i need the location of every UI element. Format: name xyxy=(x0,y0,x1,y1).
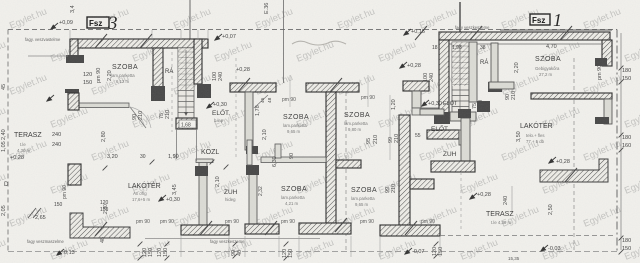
dim line x390 xyxy=(389,95,391,160)
window slash marks xyxy=(95,34,107,48)
T-wall party top xyxy=(306,83,359,92)
right stair left wall xyxy=(439,40,449,116)
level +0,30 lakoter xyxy=(159,195,166,201)
leg below T-wall right xyxy=(412,91,421,108)
frost-line dashed boundary top xyxy=(8,29,617,31)
hatched wall right of party wall xyxy=(336,160,361,168)
wall foot left xyxy=(66,55,84,63)
Fsz 3 label xyxy=(87,17,109,28)
dimension ticks xyxy=(103,66,624,261)
door post block 2 xyxy=(246,165,259,175)
wall piece left B xyxy=(68,164,81,185)
small wall ELOT left xyxy=(420,109,444,115)
leg foot xyxy=(246,146,258,154)
stair left wall foot xyxy=(151,86,165,101)
stair bottom wall right unit xyxy=(450,112,476,121)
door post block xyxy=(195,166,208,176)
small vertical divider xyxy=(275,144,281,158)
ELOT bottom wall right xyxy=(427,130,459,139)
ZUH footing right xyxy=(431,161,475,172)
right margin dimension chain xyxy=(620,33,622,250)
stair bottom wall xyxy=(176,118,197,129)
level mark +0.07 xyxy=(215,34,222,40)
wall D vertical xyxy=(399,115,410,225)
thin wall C upper extension xyxy=(247,140,252,165)
Fsz 1 label xyxy=(530,14,550,25)
top wall right unit xyxy=(439,32,610,40)
wall top-left horizontal (SZOBA Fsz3) xyxy=(70,39,208,48)
terrace wall right xyxy=(540,159,608,182)
inner face line xyxy=(449,43,601,45)
room ELOT right xyxy=(422,100,429,106)
right stair door post xyxy=(477,101,490,112)
short dim line left top xyxy=(28,55,68,57)
party wall vertical xyxy=(326,92,336,223)
wall D side arm xyxy=(410,179,434,189)
room ELOT left xyxy=(207,102,214,108)
corridor lines below stair xyxy=(176,129,178,159)
T-wall right top xyxy=(403,81,429,91)
extension lines footings to dim rows xyxy=(180,236,182,257)
reference line x283 xyxy=(283,0,285,83)
LAKOTER wall right leg xyxy=(604,99,612,124)
level mark +0.15 xyxy=(404,29,411,35)
interior wall centre bottom xyxy=(249,169,257,225)
centre line stair left xyxy=(189,0,191,57)
right corner wall vertical xyxy=(602,40,612,66)
footing S2 xyxy=(245,224,279,234)
stair right wall foot xyxy=(197,84,211,98)
dashed line x172 xyxy=(171,40,173,132)
ELOT wall vertical piece xyxy=(459,130,468,145)
L bend xyxy=(412,108,444,115)
boundary dashed left xyxy=(7,30,9,253)
right stair bottom foot xyxy=(434,112,450,124)
wall top-left vertical end xyxy=(70,39,78,57)
right stair right wall xyxy=(469,42,477,102)
boundary dash-dot right xyxy=(616,30,618,253)
thin wall KOZL top xyxy=(196,159,213,163)
dashed line x236 xyxy=(235,58,237,160)
right corner foot xyxy=(595,58,607,66)
door line SZOBA-L xyxy=(130,107,146,128)
wall piece left C (corner) xyxy=(70,213,130,238)
dashed centre line x346 xyxy=(345,92,347,250)
T-wall ELOT/SZOBA top xyxy=(230,83,276,92)
partition leg ELOT xyxy=(245,92,253,150)
level mark +0.09 xyxy=(51,23,58,29)
wall piece left A xyxy=(65,89,79,93)
partition wall SZOBA bottom xyxy=(79,103,129,108)
stair right wall xyxy=(194,39,202,84)
stair left wall xyxy=(153,48,163,88)
leg foot xyxy=(595,117,609,124)
LAKOTER bottom wall xyxy=(531,93,612,99)
inner wall RA/SZOBA xyxy=(491,43,498,84)
dimension line bottom footings left xyxy=(145,238,320,240)
ZUH door block xyxy=(458,109,471,118)
right stair treads xyxy=(452,42,469,116)
door leaf ELOT left xyxy=(254,95,268,108)
thin wall under KOZL/SZOBA mid xyxy=(261,157,326,163)
bottom level marks xyxy=(57,249,64,255)
dashed line x574 xyxy=(573,58,575,250)
inner wall foot xyxy=(488,82,502,92)
faint pencil scribble xyxy=(292,41,346,45)
boundary bottom line xyxy=(8,251,617,253)
ZUH wall right unit xyxy=(461,118,470,161)
footing S1 xyxy=(181,225,229,235)
party wall footing S3 xyxy=(299,223,351,234)
dimension line top right with arrows xyxy=(500,29,612,31)
footing S4 xyxy=(380,225,440,236)
reference line x460 xyxy=(459,2,461,32)
wall ELOT right horizontal xyxy=(489,82,514,89)
interior wall ZUH left xyxy=(199,162,207,225)
stair treads xyxy=(178,48,194,118)
